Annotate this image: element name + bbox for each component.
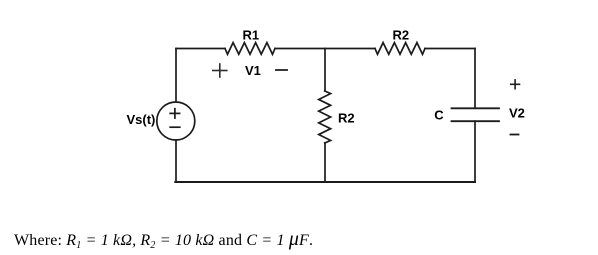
svg-text:V2: V2 bbox=[509, 106, 525, 121]
wire right lower vertical bbox=[474, 121, 476, 182]
voltage source plus sign bbox=[170, 109, 179, 118]
wire top-left horizontal bbox=[176, 48, 225, 50]
wire left upper vertical bbox=[175, 49, 177, 103]
caption: component values bbox=[14, 229, 313, 250]
wire middle upper vertical bbox=[324, 49, 326, 92]
svg-text:C: C bbox=[434, 107, 444, 122]
svg-text:R2: R2 bbox=[393, 28, 410, 43]
voltage source minus sign bbox=[170, 126, 180, 128]
polarity plus V2 bbox=[511, 80, 520, 89]
wire middle lower vertical bbox=[324, 143, 326, 182]
polarity minus V1 bbox=[276, 69, 287, 71]
voltage source Vs(t) circle bbox=[157, 102, 195, 140]
polarity plus V1 bbox=[213, 64, 227, 77]
wire right upper vertical bbox=[474, 49, 476, 109]
polarity minus V2 bbox=[511, 134, 519, 136]
wire top-middle horizontal bbox=[275, 48, 375, 50]
resistor R2 top bbox=[375, 43, 425, 55]
svg-text:Vs(t): Vs(t) bbox=[127, 112, 156, 127]
resistor R2 middle vertical bbox=[319, 91, 331, 143]
capacitor C plates bbox=[452, 108, 500, 121]
wire left lower vertical bbox=[175, 140, 177, 182]
resistor R1 bbox=[225, 43, 275, 55]
svg-text:R2: R2 bbox=[338, 111, 355, 126]
svg-text:R1: R1 bbox=[243, 27, 260, 42]
wire top-right horizontal bbox=[425, 48, 475, 50]
wire bottom horizontal bbox=[175, 181, 475, 183]
svg-text:V1: V1 bbox=[245, 63, 261, 78]
